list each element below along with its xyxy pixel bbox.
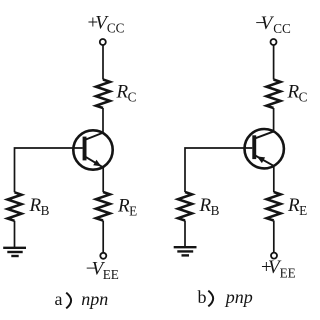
terminal -VEE [100,253,106,259]
transistor Q2 emitter diagonal [255,156,274,167]
resistor RC (pnp) [267,80,281,109]
transistor Q1 base bar [83,137,87,161]
wire emitter to RE (pnp) [273,166,275,192]
resistor RC (npn) [96,80,110,109]
ground (npn) [3,248,26,256]
transistor Q1 circle [73,130,112,169]
wire VCC to RC (pnp) [273,45,275,79]
wire RB to ground [14,221,16,248]
wire emitter to RE [102,167,104,192]
resistor RB (npn) [8,192,22,221]
terminal +VCC [100,39,106,45]
wire RB to ground (pnp) [184,221,186,247]
resistor RE (npn) [96,192,110,221]
ground (pnp) [174,247,197,255]
wire RE to VEE [102,221,104,253]
terminal -VCC [271,39,277,45]
transistor Q2 emitter arrow [257,156,265,163]
svg-text:b: b [198,287,207,307]
terminal +VEE [271,253,277,259]
svg-text:a: a [55,289,63,309]
base wire (npn) [15,148,83,192]
svg-text:pnp: pnp [224,287,253,307]
svg-text:npn: npn [81,289,108,309]
transistor Q1 collector diagonal [86,133,104,140]
wire RC to collector (pnp) [273,108,275,132]
transistor Q2 collector diagonal [255,131,274,138]
transistor Q1 emitter diagonal [86,157,104,168]
resistor RB (pnp) [178,192,192,221]
base wire (pnp) [185,148,252,192]
resistor RE (pnp) [267,192,281,221]
wire RC to collector [102,108,104,133]
transistor Q2 base bar [252,135,256,159]
wire RE to VEE (pnp) [273,221,275,253]
transistor Q2 circle [245,129,284,168]
wire VCC to RC [102,45,104,79]
transistor Q1 emitter arrow [93,160,101,167]
